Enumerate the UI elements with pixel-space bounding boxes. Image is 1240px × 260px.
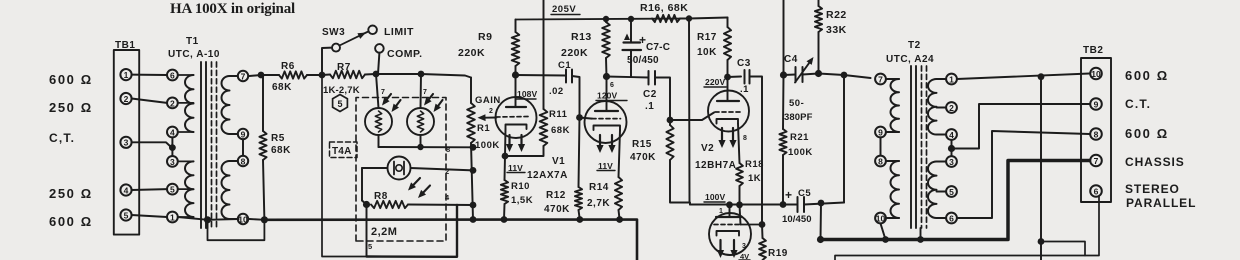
svg-text:600 Ω: 600 Ω (49, 72, 93, 87)
svg-text:220K: 220K (458, 47, 485, 59)
label 600 ohm (input top) (49, 72, 93, 87)
chassis wire TB2-7 (821, 161, 1090, 240)
label R17 value 10K (697, 47, 717, 58)
T1 secondary connect 9-8 (242, 139, 244, 156)
wire T2-6 to TB2-8 (957, 131, 1089, 218)
label C7-C value 50/450 (627, 55, 659, 66)
label C4 (784, 54, 798, 65)
tube V1b envelope (585, 101, 627, 143)
svg-text:2: 2 (949, 103, 954, 113)
photocell 1 top lead (376, 74, 379, 108)
node R21 bottom junction (780, 201, 787, 208)
svg-text:470K: 470K (630, 152, 656, 163)
svg-text:R13: R13 (571, 31, 592, 43)
label COMP. (387, 48, 423, 60)
wire C3 to V2b grid line (750, 77, 763, 225)
svg-text:2,2M: 2,2M (371, 226, 397, 238)
V1a plate bar (506, 106, 526, 108)
wire node to R7 (322, 74, 330, 77)
node R18/V2b grid junction (736, 201, 743, 208)
T1 terminal 6 lead (178, 74, 194, 76)
wire feedback node down (782, 75, 785, 129)
node R22 junction (815, 70, 822, 77)
node photocell return on gain pot line (470, 144, 477, 151)
wire V2b grid to R19 node (741, 224, 762, 226)
T1 secondary terminal 10 lead (230, 218, 238, 220)
node V2b top junction (726, 201, 733, 208)
label C5 value 10/450 (782, 214, 812, 225)
svg-text:R19: R19 (768, 248, 788, 259)
wire T2-10 to chassis bus (881, 223, 886, 239)
svg-text:+: + (639, 33, 646, 47)
label 250 ohm (lower) (49, 186, 93, 201)
T2 secondary terminal 3 (946, 156, 957, 167)
node pot line to ground bus (470, 216, 477, 223)
wire T1-10 to ground bus start (249, 218, 264, 221)
C7-C polarity + (639, 33, 646, 47)
svg-text:R8: R8 (374, 191, 388, 202)
T4A dashed enclosure (356, 98, 446, 242)
wire C2 to V2a grid node (655, 78, 670, 121)
label R15 (632, 139, 652, 150)
title text HA 100X in original (170, 1, 295, 17)
svg-text:C5: C5 (798, 188, 811, 199)
node staircase junction (1038, 238, 1045, 245)
V1a cathode lead (504, 129, 507, 156)
V2b plate bar (716, 216, 741, 218)
TB2 terminal 6 (1090, 185, 1102, 197)
label R19 (768, 248, 788, 259)
T4A pin 2 label (445, 167, 449, 176)
node photocell 2 junction (418, 71, 425, 78)
terminal block TB1 label (115, 40, 135, 51)
TB1 terminal 2 (120, 93, 131, 104)
node R16 right junction (686, 15, 692, 21)
node R8/lamp junction (363, 201, 370, 208)
V1a grid (496, 116, 529, 119)
svg-text:3: 3 (949, 157, 954, 167)
resistor R19 (759, 225, 766, 260)
svg-text:C7-C: C7-C (646, 42, 670, 53)
V2b pin 3 label (742, 243, 746, 250)
label C2 (643, 89, 657, 100)
T1 terminal 2 lead (178, 102, 194, 104)
label C4 value 50-380pF (784, 98, 813, 123)
svg-text:4: 4 (949, 130, 954, 140)
wire TB1-5 to T1-1 (132, 215, 167, 217)
label V2 type 12BH7A (695, 160, 736, 171)
svg-text:7: 7 (878, 74, 883, 84)
svg-text:+: + (785, 188, 792, 202)
svg-text:R22: R22 (826, 9, 847, 21)
resistor R22 (815, 0, 822, 74)
T2 primary terminal 9 lead (886, 131, 899, 133)
node T2-10 chassis junction (882, 236, 889, 243)
wire photocell bottoms (379, 135, 474, 147)
V1b cathode (594, 126, 621, 131)
wire T1-7 to node (249, 75, 261, 76)
switch SW3 arm to LIMIT (340, 32, 369, 46)
label R10 (511, 181, 530, 192)
svg-text:R10: R10 (511, 181, 530, 192)
T1 core line 1 (200, 62, 202, 228)
svg-text:V1: V1 (552, 156, 565, 167)
label 108V (516, 89, 537, 99)
T2 secondary terminal 1 (946, 74, 957, 85)
TB1 terminal 3 (120, 137, 131, 148)
C7-C triangle marker (624, 34, 630, 41)
T1 terminal 3 lead (178, 160, 194, 162)
label R13 (571, 31, 592, 43)
svg-text:250 Ω: 250 Ω (49, 100, 93, 115)
node V1a cathode junction (502, 153, 509, 160)
resistor R14 (615, 177, 622, 220)
svg-text:68K: 68K (272, 82, 292, 93)
T1 primary terminal 1 (167, 212, 178, 223)
T2 secondary terminal 2 (946, 102, 957, 113)
wire R17 tap (689, 18, 728, 19)
resistor R21 (779, 129, 786, 155)
switch SW3 LIMIT contact (368, 26, 377, 35)
svg-text:1: 1 (949, 74, 954, 84)
svg-text:50-: 50- (789, 98, 804, 109)
tube V1a envelope (496, 97, 537, 138)
svg-text:R1: R1 (477, 123, 490, 134)
wire shield junction to T1-10 (208, 218, 239, 221)
svg-text:SW3: SW3 (322, 27, 345, 38)
resistor R18 (736, 163, 743, 186)
label 600 ohm (output top) (1125, 68, 1169, 83)
label 220V (704, 77, 726, 87)
T4A label box (330, 142, 358, 158)
V2a cathode (717, 119, 739, 124)
T2 secondary terminal 6 (946, 213, 957, 224)
T4A pin 8 label (446, 145, 450, 154)
svg-text:100V: 100V (705, 192, 725, 202)
wire R7 to node (365, 73, 375, 76)
svg-text:R14: R14 (589, 182, 609, 193)
wire TB1-4 to T1-5 (132, 188, 167, 191)
label V1 type 12AX7A (527, 170, 568, 181)
label 4V (739, 252, 750, 260)
svg-text:6: 6 (949, 213, 954, 223)
svg-text:R5: R5 (271, 133, 285, 144)
wire node to photocell2 node (376, 73, 421, 75)
svg-text:UTC, A-10: UTC, A-10 (168, 49, 220, 60)
transformer T2 label (886, 40, 934, 65)
stereo parallel staircase (1041, 242, 1085, 256)
label STEREO PARALLEL (1125, 182, 1196, 210)
V1a heater arrows (506, 135, 525, 152)
wire lamp left down (361, 168, 363, 201)
svg-text:7: 7 (381, 89, 385, 96)
lamp right lead (pin 2) (411, 168, 474, 170)
TB1 terminal 5 (120, 209, 131, 220)
V2b heater arrows (717, 240, 738, 258)
node R10 to ground bus (501, 216, 508, 223)
T4A pin 5 lead (366, 205, 368, 257)
svg-text:8: 8 (743, 135, 747, 142)
terminal block TB2 box (1081, 58, 1111, 202)
label GAIN (475, 95, 501, 106)
node C7-C on rail (628, 16, 634, 22)
T2 secondary terminal 3 lead (937, 161, 947, 163)
label R16 68K (640, 2, 688, 14)
V2a pin 8 label (743, 135, 747, 142)
svg-text:100K: 100K (788, 147, 813, 158)
node V2a grid junction (667, 117, 674, 124)
svg-text:9: 9 (878, 127, 883, 137)
label C.T. (output) (1125, 97, 1151, 111)
node T2 c.t. junction (948, 145, 955, 152)
label V2 (701, 143, 714, 154)
svg-text:470K: 470K (544, 204, 570, 215)
label LIMIT (384, 26, 414, 38)
label C.T. (49, 131, 75, 145)
svg-text:STEREO: STEREO (1125, 182, 1180, 196)
potentiometer R1 body (467, 103, 475, 143)
TB2 terminal 10 (1090, 68, 1102, 80)
V2b top lead (729, 205, 731, 217)
svg-text:4: 4 (170, 127, 175, 137)
svg-text:9: 9 (241, 129, 246, 139)
svg-text:TB2: TB2 (1083, 45, 1103, 56)
svg-text:T4A: T4A (332, 146, 352, 157)
TB1 terminal 1 (120, 69, 131, 80)
svg-text:2,7K: 2,7K (587, 198, 610, 209)
wire COMP contact down to R7 node (378, 53, 379, 74)
svg-text:7: 7 (241, 71, 246, 81)
T2 primary connect 9-8 (880, 137, 882, 155)
label R9 (478, 31, 492, 43)
photocell 2 (T4A) (407, 108, 434, 135)
label R18 (745, 159, 764, 170)
capacitor C3 (745, 70, 750, 84)
wire TB1-3 to T1 center tap (132, 142, 171, 147)
svg-text:205V: 205V (552, 4, 576, 15)
label C1 value .02 (549, 86, 564, 97)
wire C1 to V1b grid (572, 76, 580, 118)
svg-text:LIMIT: LIMIT (384, 26, 414, 38)
capacitor C2 (649, 71, 656, 85)
wire T2-1 to TB2-10 (957, 74, 1089, 80)
V2a grid (715, 111, 742, 113)
resistor R17 (724, 18, 731, 78)
svg-text:9: 9 (1094, 99, 1099, 109)
resistor R10 (501, 156, 508, 220)
node T2 shield to chassis bus (917, 236, 924, 243)
node T1 center-tap junction (169, 144, 176, 151)
T1 secondary terminal 9 (238, 129, 248, 140)
V2a heater arrows (718, 128, 736, 148)
lamp left lead (362, 167, 388, 169)
V1a plate lead (515, 75, 517, 107)
T1 secondary terminal 7 lead (230, 75, 238, 77)
svg-text:6: 6 (610, 82, 614, 89)
resistor R7 (330, 71, 365, 79)
switch SW3 pivot contact (332, 44, 340, 52)
T2 core line 2 (915, 66, 917, 228)
svg-text:2: 2 (489, 108, 493, 115)
pot R1 wiper arrow (478, 114, 497, 121)
label C7-C (646, 42, 670, 53)
T2 secondary terminal 2 lead (937, 107, 947, 109)
wire SW3 common down run (322, 75, 367, 257)
svg-text:10/450: 10/450 (782, 214, 812, 225)
svg-text:.02: .02 (549, 86, 564, 97)
label R10 value 1.5K (511, 195, 533, 206)
switch SW3 label (322, 27, 345, 38)
wire node down to R5 (262, 75, 264, 131)
svg-text:PARALLEL: PARALLEL (1126, 196, 1196, 210)
feedback feed vertical (783, 0, 785, 75)
svg-text:8: 8 (446, 145, 450, 154)
T2 secondary terminal 4 (946, 129, 957, 140)
svg-text:11V: 11V (508, 163, 523, 173)
node lamp return on gain pot line (470, 167, 477, 174)
svg-text:COMP.: COMP. (387, 48, 423, 60)
T1 terminal 1 lead (178, 216, 194, 218)
svg-text:5: 5 (124, 210, 129, 220)
label 600 ohm (output mid) (1125, 126, 1169, 141)
TB1 terminal 4 (120, 184, 131, 195)
V2a plate bar (717, 100, 739, 102)
V1a grid to pot wiper (0, 0, 1, 1)
capacitor C7-C (623, 19, 642, 77)
T1 primary winding lower (3-5-1) (185, 161, 194, 217)
svg-text:220V: 220V (705, 77, 725, 87)
svg-text:R11: R11 (549, 109, 568, 120)
photocell 1 (T4A) (365, 108, 392, 135)
svg-text:R17: R17 (697, 32, 717, 43)
label R18 value 1K (748, 173, 761, 184)
svg-text:6: 6 (1094, 186, 1099, 196)
resistor R12 (575, 187, 582, 220)
node T1 shield junction (204, 216, 211, 223)
T2 secondary winding 1-2-4 (928, 79, 937, 135)
node R8 return on gain pot line (470, 202, 477, 209)
svg-text:11V: 11V (598, 161, 613, 171)
T1 secondary terminal 10 (238, 214, 248, 225)
photocell 1 light arrows (382, 94, 401, 112)
svg-text:5: 5 (170, 185, 175, 195)
label 11V (V1a cathode) (507, 163, 525, 173)
wire sidechain vertical (543, 0, 545, 109)
ground bus (264, 220, 637, 260)
V2b grid (714, 224, 741, 226)
label R8 (374, 191, 388, 202)
svg-text:68K: 68K (551, 125, 570, 136)
V1b heater arrows (596, 135, 615, 153)
TB2 terminal 9 (1090, 98, 1102, 110)
node R13 plate junction (603, 73, 610, 80)
svg-text:2: 2 (124, 94, 129, 104)
tube V2b envelope (709, 213, 751, 255)
label 100V (704, 192, 725, 202)
svg-text:250 Ω: 250 Ω (49, 186, 93, 201)
T1 secondary terminal 9 lead (230, 133, 238, 135)
svg-text:3: 3 (742, 243, 746, 250)
svg-text:2: 2 (445, 167, 449, 176)
node stereo-parallel vertical junction (1038, 73, 1045, 80)
node R7/COMP/photocell junction (373, 71, 380, 78)
label R9 value 220K (458, 47, 485, 59)
svg-text:R15: R15 (632, 139, 652, 150)
svg-text:10: 10 (238, 214, 248, 224)
T2 secondary terminal 5 (946, 186, 957, 197)
wire output vertical line (1040, 77, 1042, 260)
wire T1-1 to shield junction (178, 217, 208, 220)
wire R6 to node (307, 74, 322, 76)
label R17 (697, 32, 717, 43)
wire R16 node down feed (688, 19, 691, 203)
svg-text:1K: 1K (748, 173, 761, 184)
wire V2a plate to C3 (728, 76, 742, 79)
wire bottom heavy run to right (367, 205, 458, 257)
node R6/R7/SW3 junction (319, 72, 326, 79)
svg-text:2: 2 (170, 98, 175, 108)
svg-text:8: 8 (241, 156, 246, 166)
V1a cathode (506, 125, 527, 130)
T1 core line 2 (205, 62, 207, 228)
label R7 (337, 62, 351, 73)
V1b plate bar (595, 110, 618, 112)
resistor R6 (279, 71, 307, 78)
label R6 (272, 61, 295, 93)
T1 primary terminal 3 (167, 156, 178, 167)
svg-text:1,5K: 1,5K (511, 195, 533, 206)
svg-text:UTC, A24: UTC, A24 (886, 54, 934, 65)
resistor R8 (371, 201, 408, 208)
svg-text:600 Ω: 600 Ω (1125, 68, 1169, 83)
capacitor C5 (798, 197, 805, 212)
resistor R11 (540, 109, 548, 146)
T1 core shield dashed 1 (211, 62, 213, 228)
svg-text:C1: C1 (558, 60, 571, 71)
svg-text:8: 8 (1094, 129, 1099, 139)
wire C5 node down to chassis bus (820, 203, 823, 240)
wire lamp corner to R8 node (362, 201, 367, 205)
wire R21 to 100V line (782, 155, 784, 205)
label R15 value 470K (630, 152, 656, 163)
V2a cathode lead (738, 124, 740, 164)
label V1 (552, 156, 565, 167)
V2b pin 1 label (719, 208, 723, 215)
resistor R16 (652, 15, 689, 22)
gain pot bottom lead to bus (471, 143, 473, 220)
svg-text:T1: T1 (186, 36, 199, 47)
svg-text:12AX7A: 12AX7A (527, 170, 568, 181)
svg-text:GAIN: GAIN (475, 95, 501, 106)
T1 core shield dashed 2 (216, 62, 218, 228)
svg-text:10K: 10K (697, 47, 717, 58)
lamp light arrows onto R8 (408, 178, 430, 198)
resistor R15 (666, 120, 673, 160)
svg-text:C,T.: C,T. (49, 131, 75, 145)
svg-text:8: 8 (878, 156, 883, 166)
V2a plate lead (727, 77, 729, 101)
label C3 (737, 58, 751, 69)
bottom wire long (835, 197, 1099, 260)
resistor R13 (602, 19, 610, 77)
svg-text:10: 10 (876, 213, 886, 223)
label R11 (549, 109, 568, 120)
label R1 (477, 123, 490, 134)
wire R18 node to V2b grid (740, 205, 741, 225)
node R6/R5 junction (258, 72, 265, 79)
svg-text:5: 5 (337, 99, 342, 109)
T2 primary winding lower (8-10) (891, 161, 900, 218)
